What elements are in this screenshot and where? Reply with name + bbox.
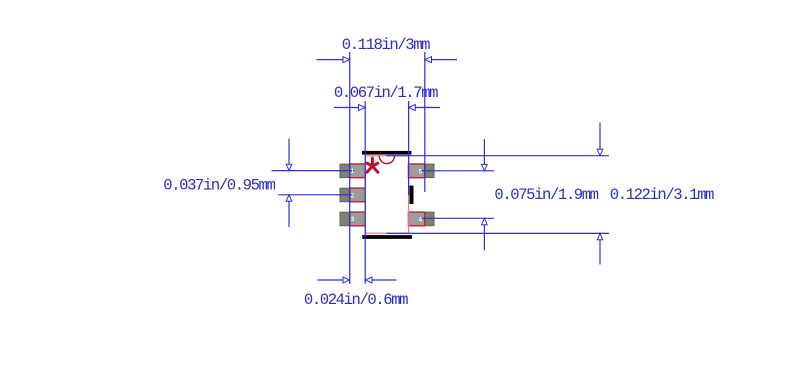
dim 1.9mm lower shaft <box>483 218 485 250</box>
arrowhead 3mm left <box>343 57 350 63</box>
arrowhead 1.9mm up <box>482 218 488 224</box>
svg-text:3: 3 <box>351 216 355 223</box>
arrowhead 0.95mm up <box>286 195 292 201</box>
svg-text:0.037in/0.95mm: 0.037in/0.95mm <box>163 177 275 195</box>
dim 0.95mm lower shaft <box>288 195 290 227</box>
extension line V2 (x=365.2) <box>364 101 366 284</box>
dim 3.1mm line F (body bottom) <box>387 232 609 234</box>
pad 5 land (red outline) <box>408 164 424 178</box>
svg-text:2: 2 <box>351 192 355 199</box>
dim 1.7mm left arrow line <box>334 107 365 109</box>
arrowhead 3.1mm down <box>597 149 603 155</box>
extension line V4 (x=424.8) <box>424 52 426 192</box>
pad 3 copper (outer) <box>340 212 365 226</box>
svg-text:5: 5 <box>419 168 423 175</box>
dim 3.1mm lower shaft <box>599 233 601 264</box>
extension line V1 (x=349.7) <box>349 52 351 284</box>
svg-text:0.067in/1.7mm: 0.067in/1.7mm <box>334 84 438 102</box>
arrowhead 0.6mm left <box>343 277 350 283</box>
dim 0.95mm line A (pin1 row) <box>272 170 355 172</box>
pin-1 index arc <box>379 156 394 164</box>
arrowhead 1.7mm right <box>409 105 416 111</box>
dim 3mm right arrow line <box>425 59 457 61</box>
pad 2 copper (outer) <box>340 188 365 202</box>
dim 1.9mm upper shaft <box>483 139 485 171</box>
svg-text:0.118in/3mm: 0.118in/3mm <box>342 36 430 54</box>
package body outline <box>365 156 408 233</box>
dim 1.7mm right arrow line <box>409 107 440 109</box>
dim 3.1mm upper shaft <box>599 123 601 156</box>
svg-text:0.122in/3.1mm: 0.122in/3.1mm <box>610 186 714 204</box>
silkscreen top bar <box>362 151 411 155</box>
svg-text:1: 1 <box>351 168 355 175</box>
dim 0.6mm right arrow line <box>365 279 396 281</box>
extension line V3 (x=408.6) <box>408 101 410 195</box>
silkscreen right bar <box>410 186 414 204</box>
dim 3mm left arrow line <box>317 59 350 61</box>
pad 4 copper (outer) <box>409 212 435 226</box>
pad 1 land (red outline) <box>350 164 366 178</box>
svg-text:0.024in/0.6mm: 0.024in/0.6mm <box>304 291 408 309</box>
arrowhead 1.9mm down <box>482 164 488 170</box>
dim 1.9mm line C (pin5 row) <box>421 170 494 172</box>
svg-text:0.075in/1.9mm: 0.075in/1.9mm <box>494 186 598 204</box>
pad 2 land (red outline) <box>350 188 366 202</box>
svg-text:4: 4 <box>419 216 423 223</box>
arrowhead 3.1mm up <box>597 233 603 239</box>
dim 0.95mm line B (pin2 row) <box>278 194 354 196</box>
pad 1 copper (outer) <box>340 164 365 178</box>
arrowhead 3mm right <box>425 57 432 63</box>
arrowhead 1.7mm left <box>359 105 366 111</box>
arrowhead 0.6mm right <box>365 277 372 283</box>
pad 3 land (red outline) <box>350 212 366 226</box>
dim 0.6mm left arrow line <box>318 279 350 281</box>
dim 3.1mm line E (body top) <box>387 155 609 157</box>
pad 4 land (red outline) <box>408 212 424 226</box>
arrowhead 0.95mm down <box>286 164 292 170</box>
pad 5 copper (outer) <box>409 164 435 178</box>
silkscreen bottom bar <box>362 235 412 239</box>
pin-1 asterisk marker <box>367 158 378 172</box>
dim 1.9mm line D (pin4 row) <box>421 217 494 219</box>
dim 0.95mm upper shaft <box>288 139 290 171</box>
